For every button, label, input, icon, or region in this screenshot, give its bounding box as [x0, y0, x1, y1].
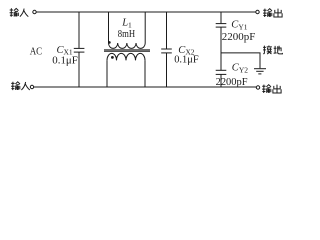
capacitor CY2 [216, 70, 227, 74]
capacitor CY1 [216, 24, 227, 28]
input terminal top-left [33, 10, 36, 13]
output terminal bottom-right [256, 86, 259, 89]
svg-text:8mH: 8mH [118, 29, 136, 40]
choke core lines [104, 50, 150, 51]
capacitor CX1 [74, 48, 85, 52]
wire earth branch [221, 53, 260, 68]
svg-text:0.1μF: 0.1μF [52, 54, 78, 66]
phase dot bottom winding [111, 56, 114, 59]
capacitor CX2 [161, 49, 172, 53]
choke L1 left upper lead [108, 12, 110, 43]
choke L1 left lower lead [106, 60, 108, 87]
svg-text:L1: L1 [121, 18, 132, 30]
svg-text:CY1: CY1 [231, 20, 247, 32]
wire CX2 lower lead [166, 53, 168, 87]
earth ground symbol [254, 69, 266, 74]
svg-text:AC: AC [30, 46, 43, 57]
choke L1 right lower lead [144, 60, 146, 87]
wire CX2 upper lead [166, 12, 168, 49]
wire CX1 upper lead [78, 12, 80, 48]
wire CY2 lower lead [220, 74, 222, 87]
wire top rail [36, 11, 255, 13]
wire CX1 lower lead [78, 52, 80, 87]
input terminal bottom-left [30, 85, 33, 88]
wire CY1 to CY2 mid node [220, 27, 222, 70]
svg-text:2200pF: 2200pF [222, 31, 256, 43]
label 输出 top [263, 9, 282, 17]
label 输出 bottom [262, 85, 281, 93]
output terminal top-right [256, 10, 259, 13]
phase dot top winding [108, 41, 111, 44]
label 输入 bottom [11, 82, 30, 90]
label 接地 [263, 46, 282, 55]
wire bottom rail [34, 86, 256, 88]
wire CY1 upper lead [220, 12, 222, 23]
inductor L1 top winding [109, 43, 146, 48]
inductor L1 bottom winding [107, 53, 145, 60]
label 输入 top [10, 8, 29, 16]
svg-text:2200pF: 2200pF [216, 76, 248, 88]
svg-text:0.1μF: 0.1μF [174, 54, 199, 66]
choke L1 right upper lead [144, 12, 146, 43]
svg-text:CY2: CY2 [232, 63, 248, 75]
